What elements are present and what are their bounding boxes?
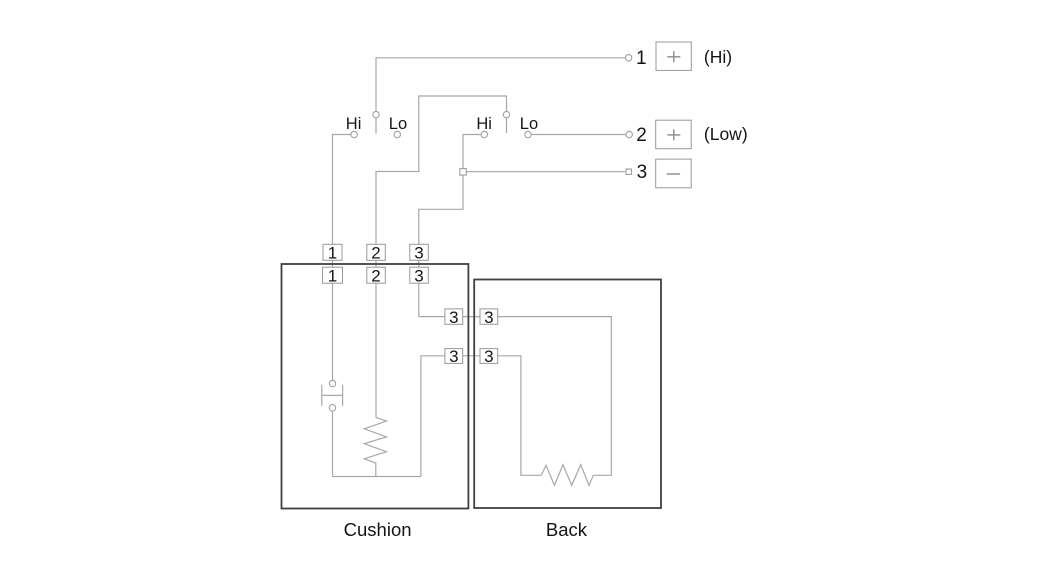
switch SW1 Hi contact <box>351 131 357 137</box>
svg-text:Cushion: Cushion <box>344 519 412 540</box>
thermostat bottom contact <box>329 405 335 411</box>
svg-text:Lo: Lo <box>520 115 538 133</box>
switch SW2 Lo contact <box>525 131 531 137</box>
switch SW2 Hi contact <box>481 131 487 137</box>
wire: cushion bottom bus <box>333 476 421 478</box>
connector pin box 3 (harness side) <box>410 244 429 260</box>
thermostat top contact <box>329 380 335 386</box>
switch SW1 pole contact <box>373 111 379 117</box>
terminal 2 contact <box>626 131 632 137</box>
connector pin box 1 (harness side) <box>323 244 342 260</box>
wire: thermostat bottom to cushion bottom bus <box>332 411 334 477</box>
terminal block (Hi) box <box>656 42 691 70</box>
svg-text:3: 3 <box>637 162 648 183</box>
svg-text:3: 3 <box>414 266 423 285</box>
svg-text:1: 1 <box>328 266 337 285</box>
connector pin box 1 (cushion side) <box>323 267 343 283</box>
wire: connector pin 2 up-loop to switch SW2 pole <box>376 96 507 418</box>
svg-text:3: 3 <box>484 347 493 366</box>
wire: cushion bus up to pin 3 pair and into back heater left <box>421 356 541 477</box>
svg-text:1: 1 <box>636 48 647 69</box>
svg-text:2: 2 <box>371 244 380 263</box>
switch SW2 blade <box>506 118 508 133</box>
svg-text:Back: Back <box>546 519 588 540</box>
connector pin box 3 (back in, upper) <box>480 309 498 324</box>
plus sign (Low terminal) <box>667 129 680 140</box>
wire: terminal 1 to switch SW1 pole <box>376 58 625 112</box>
connector pin box 3 (cushion out, upper) <box>445 309 463 324</box>
back unit box <box>474 280 661 509</box>
wire: SW2 Hi contact to junction node J1 <box>463 135 481 169</box>
terminal 1 contact <box>625 55 631 61</box>
svg-text:(Low): (Low) <box>704 124 748 144</box>
svg-text:Lo: Lo <box>389 115 407 133</box>
connector pin box 3 (cushion out, lower) <box>445 349 463 364</box>
terminal block (Low) box <box>656 120 692 149</box>
wire: junction J1 to terminal 3 <box>466 171 625 173</box>
svg-text:1: 1 <box>328 244 337 263</box>
terminal block minus box <box>656 159 692 188</box>
connector pin box 2 (cushion side) <box>367 267 386 283</box>
switch SW1 Lo contact <box>394 131 400 137</box>
svg-text:Hi: Hi <box>346 115 362 133</box>
junction node J1 <box>460 169 467 176</box>
resistor: cushion heater element <box>364 418 386 477</box>
svg-text:2: 2 <box>371 266 380 285</box>
svg-text:3: 3 <box>414 244 423 263</box>
svg-text:3: 3 <box>484 308 493 327</box>
switch SW2 pole contact <box>503 111 509 117</box>
connector pin box 2 (harness side) <box>367 244 386 260</box>
thermostat element bars <box>322 385 343 406</box>
minus sign (ground terminal) <box>667 173 680 175</box>
connector pin box 3 (back in, lower) <box>480 349 498 364</box>
connector pin box 3 (cushion side) <box>410 267 429 283</box>
svg-text:Hi: Hi <box>476 115 492 133</box>
svg-text:3: 3 <box>449 347 458 366</box>
plus sign (Hi terminal) <box>667 51 680 62</box>
svg-text:2: 2 <box>636 125 647 146</box>
wire: SW2 Lo contact to terminal 2 <box>531 134 626 136</box>
resistor: back heater element <box>541 465 593 486</box>
terminal 3 contact square <box>626 169 631 174</box>
wire: junction J1 down to connector pin 3 and through to back heater top <box>419 175 612 475</box>
svg-text:3: 3 <box>449 308 458 327</box>
switch SW1 blade <box>375 118 377 133</box>
svg-text:(Hi): (Hi) <box>704 47 732 67</box>
wire: SW1 Hi contact to connector pin 1 <box>333 135 351 381</box>
cushion unit box <box>282 264 469 509</box>
